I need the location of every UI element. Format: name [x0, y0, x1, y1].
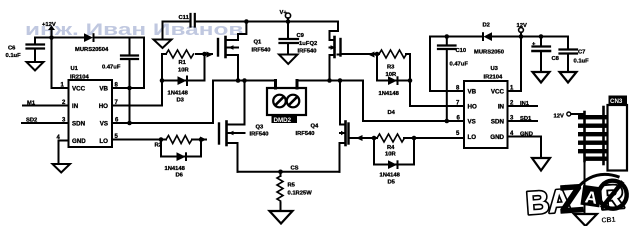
svg-text:IN1: IN1	[520, 101, 530, 107]
svg-text:1N4148: 1N4148	[165, 166, 186, 172]
svg-text:HO: HO	[99, 103, 108, 110]
svg-text:IRF540: IRF540	[250, 132, 269, 138]
svg-text:LO: LO	[99, 138, 108, 145]
svg-text:1N4148: 1N4148	[379, 91, 400, 97]
svg-text:C11: C11	[179, 15, 190, 21]
svg-text:HO: HO	[468, 104, 477, 111]
svg-text:C10: C10	[456, 48, 467, 54]
svg-text:IRF540: IRF540	[298, 49, 317, 55]
svg-text:0.1R25W: 0.1R25W	[288, 191, 313, 197]
svg-text:C6: C6	[8, 46, 16, 52]
svg-text:0.1uF: 0.1uF	[6, 53, 22, 59]
svg-text:Q1: Q1	[254, 40, 263, 46]
svg-text:Q3: Q3	[256, 125, 265, 131]
svg-text:1N4148: 1N4148	[380, 173, 401, 179]
svg-text:VB: VB	[468, 89, 477, 96]
svg-text:CN3: CN3	[610, 98, 623, 105]
svg-text:VCC: VCC	[72, 86, 86, 93]
svg-text:0.47uF: 0.47uF	[450, 62, 469, 68]
svg-text:VB: VB	[99, 86, 108, 93]
svg-text:M1: M1	[27, 101, 36, 107]
svg-text:R2: R2	[155, 143, 162, 149]
svg-text:D4: D4	[388, 110, 396, 116]
svg-text:12V: 12V	[554, 114, 564, 120]
svg-text:C9: C9	[297, 33, 305, 39]
svg-text:GND: GND	[490, 134, 504, 141]
svg-text:IRF540: IRF540	[252, 48, 271, 54]
svg-text:SD2: SD2	[26, 118, 37, 124]
svg-text:10R: 10R	[385, 152, 396, 158]
svg-text:A: A	[584, 187, 599, 208]
svg-text:IN: IN	[498, 104, 505, 111]
svg-text:IRF540: IRF540	[296, 131, 315, 137]
svg-text:SDN: SDN	[72, 121, 86, 128]
svg-text:MURS2050: MURS2050	[474, 50, 504, 56]
svg-text:MURS20504: MURS20504	[75, 47, 109, 53]
svg-text:VCC: VCC	[491, 89, 505, 96]
svg-text:GND: GND	[72, 138, 86, 145]
svg-text:R1: R1	[179, 60, 187, 66]
svg-text:10R: 10R	[386, 72, 397, 78]
svg-text:DMD2: DMD2	[274, 117, 292, 124]
svg-text:GND: GND	[520, 132, 533, 138]
svg-text:R5: R5	[288, 183, 296, 189]
svg-text:SD1: SD1	[520, 116, 532, 122]
svg-text:CS: CS	[291, 166, 299, 172]
svg-text:R3: R3	[387, 65, 395, 71]
svg-text:1N4148: 1N4148	[168, 91, 189, 97]
svg-text:D2: D2	[483, 23, 490, 29]
svg-text:10R: 10R	[178, 68, 189, 74]
svg-text:D5: D5	[388, 180, 396, 186]
svg-text:Q2: Q2	[310, 41, 318, 47]
svg-text:D6: D6	[176, 173, 184, 179]
svg-text:U1: U1	[71, 66, 79, 72]
svg-text:IN: IN	[72, 103, 79, 110]
svg-text:LO: LO	[468, 134, 477, 141]
svg-text:C8: C8	[552, 56, 560, 62]
svg-text:C7: C7	[578, 50, 585, 56]
svg-text:IR2104: IR2104	[484, 75, 503, 81]
svg-text:Q4: Q4	[311, 124, 320, 130]
svg-text:0.47uF: 0.47uF	[102, 65, 121, 71]
svg-text:IR2104: IR2104	[70, 75, 89, 81]
svg-text:CB1: CB1	[601, 217, 616, 225]
svg-text:12V: 12V	[517, 23, 527, 29]
svg-text:U3: U3	[491, 66, 499, 72]
svg-text:инж. Иван Иванов: инж. Иван Иванов	[25, 21, 243, 39]
svg-text:0.1uF: 0.1uF	[574, 59, 590, 65]
svg-text:V+: V+	[280, 10, 288, 16]
svg-text:R4: R4	[387, 145, 395, 151]
svg-text:1uF: 1uF	[299, 41, 310, 47]
svg-text:+12V: +12V	[42, 22, 56, 28]
svg-text:VS: VS	[100, 121, 108, 128]
svg-text:/MO: /MO	[564, 184, 578, 192]
svg-text:SDN: SDN	[491, 119, 505, 126]
svg-text:D3: D3	[177, 98, 185, 104]
svg-text:VS: VS	[468, 119, 476, 126]
